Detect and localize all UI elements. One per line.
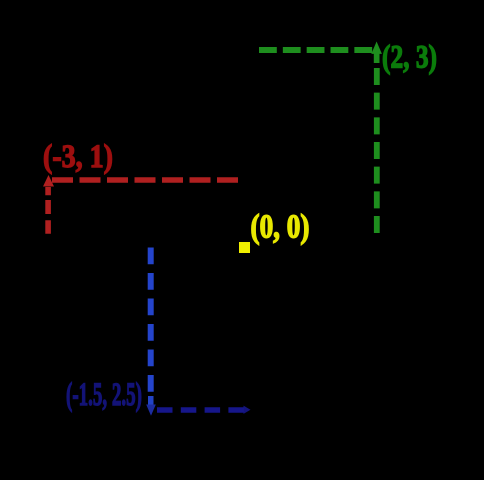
svg-text:(2, 3): (2, 3): [382, 39, 437, 75]
svg-text:(0, 0): (0, 0): [251, 209, 310, 246]
svg-text:(-1.5, 2.5): (-1.5, 2.5): [66, 377, 142, 413]
svg-text:(-3, 1): (-3, 1): [43, 139, 113, 175]
